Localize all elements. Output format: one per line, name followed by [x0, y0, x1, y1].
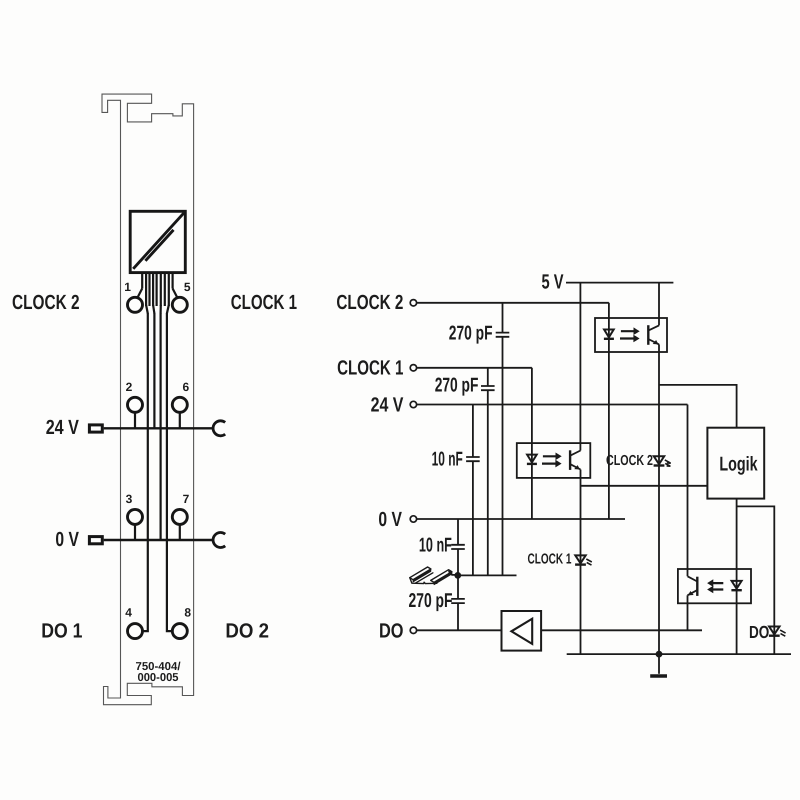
opto U3 LED symbol [731, 581, 741, 590]
24V bus wire [104, 427, 214, 429]
svg-text:24 V: 24 V [371, 394, 404, 417]
output buffer box [502, 611, 542, 651]
terminal circle 0 V [410, 516, 416, 522]
Logik box [707, 428, 764, 499]
wire Logik bottom through U3 LED [736, 499, 738, 591]
wire to 24V bus [153, 313, 155, 428]
indicator LED CLOCK 2 [654, 456, 671, 466]
svg-text:4: 4 [125, 605, 132, 619]
wire DO left segment [417, 629, 502, 631]
opto U2 LED symbol [527, 455, 537, 464]
optocoupler U2 box [517, 443, 591, 478]
junction chassis node [454, 572, 461, 579]
pin 7 [172, 509, 187, 524]
wire U2 emitter down to ground [580, 470, 582, 655]
0V jumper contact arc [213, 533, 225, 548]
wire capacitor C4 branch [457, 519, 459, 575]
wire capacitor C2 branch [487, 368, 489, 576]
wire 24 V horizontal [417, 404, 688, 406]
svg-text:270 pF: 270 pF [409, 590, 453, 612]
svg-text:CLOCK 1: CLOCK 1 [528, 552, 572, 568]
square diagonal 2 [145, 230, 173, 261]
data contacts square U0 [130, 211, 185, 272]
pin 8 [172, 624, 187, 639]
svg-text:CLOCK 2: CLOCK 2 [606, 453, 653, 469]
wire U3 emitter to DO [687, 595, 689, 630]
terminal circle CLOCK 1 [410, 365, 416, 371]
svg-text:DO 1: DO 1 [41, 619, 82, 642]
indicator LED DO [769, 627, 786, 637]
pin 7 stub [179, 524, 181, 540]
opto U3 phototransistor [688, 576, 698, 596]
svg-text:10 nF: 10 nF [419, 534, 452, 556]
capacitor C3 10nF plates [466, 457, 480, 461]
wire CLOCK2 to U1 LED and cathode to 0V [608, 303, 610, 519]
0V bus wire [104, 539, 214, 541]
svg-text:24 V: 24 V [46, 416, 79, 439]
svg-text:3: 3 [126, 492, 133, 506]
wire U1 emitter down to ground [658, 344, 660, 654]
wire ground rail [567, 653, 791, 655]
terminal circle CLOCK 2 [410, 300, 416, 306]
wire to pin 1 [138, 289, 142, 298]
pin 6 [172, 397, 187, 412]
24V tab [89, 425, 102, 432]
pin 2 [128, 397, 143, 412]
svg-text:10 nF: 10 nF [432, 448, 463, 470]
opto U1 LED symbol [604, 330, 614, 339]
indicator LED CLOCK 1 [575, 555, 592, 565]
svg-text:CLOCK 2: CLOCK 2 [12, 291, 80, 314]
svg-text:DO: DO [749, 622, 769, 642]
pin 1 [128, 297, 143, 312]
opto U2 phototransistor [570, 450, 580, 470]
svg-text:0 V: 0 V [378, 508, 402, 531]
wire 24V drop to U3 collector [687, 405, 689, 577]
pin 6 stub [179, 412, 181, 428]
wire Logik branch to DO LED [737, 506, 775, 654]
wire capacitor C5 branch [457, 575, 459, 630]
wire to pin 8 [167, 313, 172, 631]
ground symbol [650, 654, 667, 676]
wire 0 V horizontal [417, 518, 625, 520]
svg-text:CLOCK 1: CLOCK 1 [231, 291, 297, 314]
DIN rail symbol [410, 567, 458, 585]
wire to pin 5 [173, 289, 177, 298]
svg-text:5: 5 [184, 280, 191, 294]
svg-text:000-005: 000-005 [138, 672, 180, 684]
optocoupler U1 box [595, 318, 667, 352]
optocoupler U3 box [678, 569, 751, 603]
opto U1 arrows [620, 327, 640, 342]
svg-text:2: 2 [126, 380, 133, 394]
wire 5V drop to U1 [658, 283, 660, 326]
wire U2 emitter branch to Logik [581, 485, 708, 487]
opto U3 arrows [707, 579, 723, 593]
svg-text:270 pF: 270 pF [449, 323, 493, 345]
capacitor C5 270pF plates [451, 599, 465, 603]
wire capacitor C3 branch [472, 405, 474, 576]
svg-text:270 pF: 270 pF [435, 374, 479, 396]
svg-text:1: 1 [124, 280, 131, 294]
terminal circle 24 V [410, 401, 416, 407]
svg-text:DO: DO [379, 620, 404, 643]
svg-text:7: 7 [183, 492, 190, 506]
wire 5V drop to U2 [579, 283, 581, 451]
svg-text:8: 8 [184, 605, 191, 619]
svg-text:6: 6 [183, 380, 190, 394]
wire 5 V rail [566, 282, 673, 284]
capacitor C4 10nF plates [451, 545, 465, 549]
opto U1 phototransistor [648, 325, 659, 345]
wire CLOCK 2 horizontal [417, 302, 609, 304]
terminal circle DO [410, 627, 416, 633]
24V jumper contact arc [213, 421, 225, 436]
wire DO right segment [541, 629, 702, 631]
capacitor C1 270pF plates [496, 333, 510, 337]
output buffer triangle [511, 619, 532, 644]
pin 4 [128, 624, 143, 639]
wire capacitor C1 branch [502, 303, 504, 576]
svg-text:DO 2: DO 2 [225, 619, 269, 642]
wire to pin 4 [143, 313, 148, 631]
module outline 750-404 side view [102, 94, 194, 705]
pin 5 [172, 297, 187, 312]
wire bundle below square [142, 273, 172, 306]
svg-text:Logik: Logik [719, 453, 758, 475]
wire chassis bus [458, 574, 517, 576]
square diagonal 1 [133, 213, 184, 269]
wire U3 LED cathode to ground [736, 590, 738, 654]
svg-text:5 V: 5 V [542, 270, 564, 293]
wire U1 emitter branch to Logik [659, 385, 737, 428]
capacitor C2 270pF plates [481, 386, 495, 390]
svg-text:CLOCK 1: CLOCK 1 [337, 356, 403, 379]
svg-text:0 V: 0 V [55, 528, 79, 551]
bundle merge joggles [146, 305, 169, 314]
svg-text:CLOCK 2: CLOCK 2 [336, 291, 403, 314]
pin 3 [128, 509, 143, 524]
0V tab [89, 537, 102, 544]
wire CLOCK 1 horizontal [417, 367, 532, 369]
wire to 0V bus [160, 313, 162, 540]
wire CLOCK1 corner through U2 LED to 0V [531, 368, 533, 519]
pin 3 stub [134, 524, 136, 540]
pin 2 stub [134, 412, 136, 428]
opto U2 arrows [542, 453, 562, 468]
junction ground node [656, 651, 663, 658]
